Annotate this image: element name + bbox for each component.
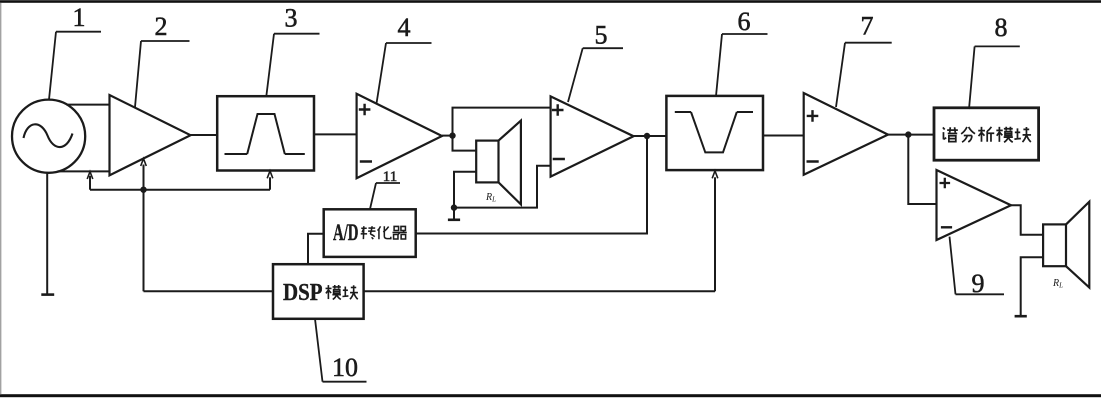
wire node D to spectrum analysis module: [908, 134, 934, 136]
speaker RL (output): [1043, 202, 1089, 288]
svg-text:2: 2: [155, 12, 168, 41]
wire node A to speaker RL upper terminal: [453, 136, 477, 151]
ground (under speaker RL): [448, 219, 460, 222]
DSP module 10: [273, 264, 364, 319]
svg-text:A/D: A/D: [333, 220, 359, 245]
svg-text:10: 10: [332, 353, 358, 382]
ground (under source): [41, 293, 54, 296]
svg-text:11: 11: [383, 169, 397, 185]
module text: DSP module (box 10): [283, 280, 358, 306]
op-amp 7: [804, 93, 888, 175]
wire amplifier output to band-pass filter: [191, 134, 218, 136]
wire band-stop filter to op-amp 7: [763, 135, 804, 137]
op-amp 4: [357, 94, 442, 178]
svg-text:9: 9: [972, 269, 985, 298]
pin + (op-amp 4): [359, 104, 371, 116]
node C: [644, 133, 650, 139]
wire node D down to op-amp 9 input: [908, 135, 936, 204]
node J1 (junction on control rail): [140, 187, 146, 193]
svg-text:3: 3: [285, 4, 298, 33]
pin - (op-amp 7): [807, 160, 819, 163]
wire A/D converter output to DSP module: [308, 234, 324, 264]
pin + (op-amp 5): [552, 104, 564, 116]
reference label 5: [568, 48, 623, 102]
wire op-amp 7 output to node D: [888, 134, 908, 136]
wire node A to op-amp 5 plus input: [453, 108, 551, 136]
pin - (op-amp 4): [360, 160, 372, 163]
reference label 10: [315, 319, 367, 382]
pin + (op-amp 9): [940, 178, 951, 189]
pin - (op-amp 9): [941, 226, 952, 228]
svg-text:RL: RL: [1052, 278, 1063, 290]
amplifier 2: [110, 95, 191, 175]
AC signal source 1: [12, 100, 85, 173]
svg-text:5: 5: [595, 21, 608, 50]
svg-text:1: 1: [73, 3, 86, 32]
wire source lower output to amplifier bottom: [58, 170, 110, 172]
wire gain-control rail: [90, 189, 270, 191]
wire DSP control arrow into band-stop filter bottom: [714, 177, 716, 291]
band-pass filter 3: [217, 96, 314, 170]
wire control arrow into band-pass filter bottom: [269, 177, 271, 189]
svg-text:8: 8: [995, 13, 1008, 42]
wire source upper output to amplifier input: [67, 104, 110, 106]
wire node C to band-stop filter: [647, 135, 666, 137]
reference label 2: [135, 41, 190, 107]
wire source to ground: [46, 173, 48, 295]
op-amp 9: [937, 170, 1012, 240]
wire DSP module to amplifier control junction: [144, 290, 274, 292]
svg-text:6: 6: [738, 7, 751, 36]
ground (under output speaker): [1015, 315, 1027, 318]
pin - (op-amp 5): [553, 158, 565, 161]
reference label 1: [49, 32, 101, 100]
wire op-amp 5 output to node C: [634, 135, 648, 137]
reference label 4: [377, 43, 432, 104]
wire control arrow into source-amp lower wire: [89, 176, 91, 190]
wire band-pass filter to op-amp 4: [314, 133, 357, 135]
wire node B to ground: [453, 208, 455, 220]
reference label 8: [969, 46, 1020, 109]
node B: [451, 204, 457, 210]
svg-text:4: 4: [398, 13, 411, 42]
svg-text:DSP: DSP: [283, 280, 323, 306]
speaker RL (load): [476, 121, 521, 205]
wire speaker lower terminal to ground: [1021, 257, 1043, 316]
reference label 7: [836, 43, 892, 107]
wire node C down and left to A/D converter: [416, 136, 647, 234]
svg-text:RL: RL: [485, 192, 496, 204]
wire op-amp 4 output to node A: [442, 135, 453, 137]
wire control arrow into amplifier bottom edge: [143, 165, 145, 190]
A/D converter 11: [324, 209, 416, 257]
reference label 3: [266, 34, 319, 96]
module text: A/D converter (box 11): [333, 220, 407, 245]
node D: [905, 131, 911, 137]
reference label 9: [950, 237, 1005, 295]
svg-text:7: 7: [861, 12, 874, 41]
wire DSP to control rail junction: [143, 190, 145, 292]
pin + (op-amp 7): [807, 110, 819, 122]
reference label 11: [370, 183, 400, 209]
wire op-amp 9 output to speaker upper terminal: [1011, 205, 1043, 235]
module text: spectrum analysis module (box 8): [943, 127, 1031, 143]
reference label 6: [716, 34, 768, 96]
spectrum analysis module 8: [934, 108, 1039, 160]
wire DSP module to band-stop filter control: [364, 290, 715, 292]
wire speaker RL lower terminal to node B: [454, 172, 476, 208]
wire node B to op-amp 5 minus input: [454, 166, 551, 208]
node A: [449, 132, 455, 138]
band-stop filter 6: [666, 96, 763, 170]
op-amp 5: [551, 96, 634, 176]
